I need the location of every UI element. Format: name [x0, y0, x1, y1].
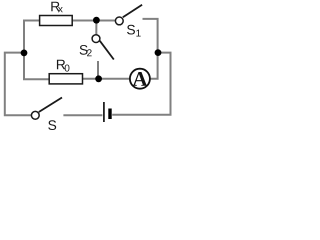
switch S blade — [39, 98, 62, 113]
resistor Rx label — [51, 2, 62, 13]
wire top-left horizontal to Rx — [23, 20, 41, 22]
node B junction dot — [93, 17, 100, 24]
wire inner-left vertical from top corner down then right to R0 — [24, 20, 50, 80]
switch S1 label — [127, 25, 141, 37]
switch S pivot circle — [31, 111, 39, 119]
wire Rx to node B — [72, 20, 97, 22]
wire S2 fixed contact stub down to node D — [97, 61, 99, 79]
switch S label — [48, 120, 56, 130]
wire S1 fixed contact to top-right corner down to node C — [143, 19, 158, 53]
wire node B down to S2 pivot — [95, 20, 97, 35]
battery short negative plate — [108, 109, 111, 120]
switch S2 blade — [100, 41, 114, 60]
resistor R0 box — [49, 74, 82, 84]
switch S1 pivot circle — [115, 17, 123, 25]
wire switch S pivot to bottom-left corner up far-left to node A — [5, 53, 31, 116]
wire node D to ammeter — [99, 78, 131, 80]
switch S2 pivot circle — [92, 35, 100, 43]
resistor Rx box — [40, 16, 73, 26]
wire node B to switch S1 pivot — [96, 20, 115, 22]
node D junction dot — [95, 75, 102, 82]
battery long positive plate — [103, 102, 105, 122]
wire R0 to node D — [82, 78, 99, 80]
wire ammeter right up to node C — [150, 53, 158, 79]
switch S2 label — [80, 45, 92, 56]
ammeter body circle — [130, 69, 150, 89]
wire node C to far-right corner down to battery positive — [112, 53, 170, 115]
node A junction dot — [21, 50, 28, 57]
ammeter A letter — [133, 72, 148, 86]
resistor R0 label — [57, 60, 70, 72]
node C junction dot — [155, 49, 162, 56]
switch S1 blade — [123, 5, 142, 18]
wire battery negative to switch S fixed contact — [63, 114, 102, 116]
